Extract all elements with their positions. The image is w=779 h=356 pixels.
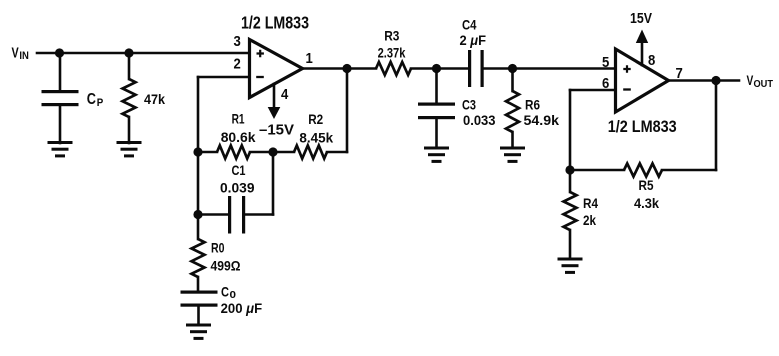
wire C1 row right xyxy=(245,213,273,216)
resistor R4 2k xyxy=(564,192,577,230)
wire CP stem top xyxy=(59,53,62,90)
svg-text:2 μF: 2 μF xyxy=(460,32,487,48)
op-amp U1 plus sign xyxy=(257,50,264,57)
svg-text:6: 6 xyxy=(602,76,609,92)
wire C1 to junction vertical xyxy=(272,152,275,215)
svg-text:1/2 LM833: 1/2 LM833 xyxy=(608,117,677,136)
wire CP stem bottom xyxy=(59,106,62,143)
wire R6 to ground xyxy=(511,132,514,148)
svg-text:IN: IN xyxy=(19,50,29,62)
svg-text:C3: C3 xyxy=(462,97,476,113)
svg-text:C1: C1 xyxy=(232,162,246,178)
wire 47k stem top xyxy=(128,53,131,79)
capacitor C4 plates xyxy=(468,50,471,87)
node R1/R2/C1 junction xyxy=(268,147,277,156)
ground under R6 xyxy=(500,147,525,150)
resistor R1 80.6k xyxy=(217,146,250,159)
wire opamp1 output xyxy=(303,67,377,70)
svg-text:5: 5 xyxy=(602,55,609,71)
node VOUT junction xyxy=(711,76,720,85)
arrow 15V (pin 8) xyxy=(636,30,648,44)
wire R4 to ground xyxy=(569,230,572,259)
svg-text:P: P xyxy=(97,97,104,109)
svg-text:15V: 15V xyxy=(630,11,652,27)
wire C3 stem top xyxy=(435,69,438,103)
svg-text:3: 3 xyxy=(234,34,241,50)
node R1 left junction xyxy=(193,147,202,156)
op-amp U2 plus sign xyxy=(623,65,630,72)
ground under C3 xyxy=(424,147,449,150)
svg-text:47k: 47k xyxy=(144,91,165,107)
resistor R2 8.45k xyxy=(294,146,327,159)
node 47k junction xyxy=(124,48,133,57)
svg-text:200 μF: 200 μF xyxy=(221,300,263,316)
svg-text:OUT: OUT xyxy=(754,79,774,90)
svg-text:R3: R3 xyxy=(384,28,399,44)
resistor R0 499ohm xyxy=(192,239,205,277)
wire feedback row left xyxy=(198,151,217,154)
resistor R5 4.3k xyxy=(624,164,662,177)
wire pin8 stem xyxy=(641,43,644,66)
svg-text:8.45k: 8.45k xyxy=(299,129,333,145)
node R3/C3/C4 junction xyxy=(432,64,441,73)
wire opamp2 output xyxy=(669,79,740,82)
op-amp U2 minus sign xyxy=(623,88,631,90)
ground under 47k xyxy=(117,141,142,144)
wire VIN to pin3 xyxy=(37,52,250,55)
wire pin6 horizontal xyxy=(570,89,616,92)
resistor R6 54.9k xyxy=(506,91,519,132)
wire feedback2 row right xyxy=(662,169,716,172)
wire feedback row mid xyxy=(250,151,294,154)
svg-text:V: V xyxy=(12,46,19,62)
capacitor C0 plates xyxy=(181,291,218,294)
capacitor CP plates xyxy=(42,90,79,93)
svg-text:8: 8 xyxy=(648,53,655,69)
arrow -15V (pin 4) xyxy=(268,107,281,119)
wire left feedback vertical xyxy=(197,77,200,239)
wire C4 to pin5 xyxy=(484,67,616,70)
wire feedback row right xyxy=(327,151,347,154)
svg-text:80.6k: 80.6k xyxy=(221,129,256,145)
op-amp U2 1/2 LM833 xyxy=(616,49,669,112)
node C1 left junction xyxy=(193,210,202,219)
svg-text:R4: R4 xyxy=(583,195,598,211)
resistor R3 2.37k xyxy=(376,62,411,75)
ground under CP xyxy=(48,141,73,144)
wire R3 to C4 xyxy=(411,67,468,70)
svg-text:4.3k: 4.3k xyxy=(634,195,659,211)
wire R0 to C0 xyxy=(197,277,200,291)
op-amp U1 minus sign xyxy=(256,76,264,78)
svg-text:2k: 2k xyxy=(583,212,596,228)
node R4/R5 junction xyxy=(565,165,574,174)
wire C1 row left xyxy=(198,213,228,216)
svg-text:R0: R0 xyxy=(211,240,225,256)
svg-text:7: 7 xyxy=(676,66,683,82)
svg-text:V: V xyxy=(747,73,754,88)
wire 47k stem bottom xyxy=(128,117,131,143)
svg-text:1: 1 xyxy=(306,51,313,67)
svg-text:–15V: –15V xyxy=(259,123,294,139)
svg-text:54.9k: 54.9k xyxy=(524,112,560,128)
resistor 47k xyxy=(123,79,136,117)
capacitor C3 plates xyxy=(418,103,455,106)
node C4/R6 junction xyxy=(508,64,517,73)
svg-text:R2: R2 xyxy=(308,111,323,127)
svg-text:R1: R1 xyxy=(232,111,245,127)
ground under R4 xyxy=(558,258,583,261)
wire pin6 feedback vertical xyxy=(569,90,572,192)
wire C0 to ground xyxy=(197,307,200,326)
svg-text:0.039: 0.039 xyxy=(220,180,255,196)
svg-text:1/2 LM833: 1/2 LM833 xyxy=(241,13,309,33)
node VIN/CP junction xyxy=(55,48,64,57)
svg-text:R6: R6 xyxy=(525,97,540,113)
svg-text:0.033: 0.033 xyxy=(463,112,496,128)
svg-text:4: 4 xyxy=(281,87,288,103)
svg-text:C: C xyxy=(87,91,96,108)
wire output feedback vertical xyxy=(715,81,718,171)
svg-text:R5: R5 xyxy=(639,177,654,193)
wire feedback2 row left xyxy=(570,169,624,172)
svg-text:2: 2 xyxy=(234,56,241,72)
svg-text:C4: C4 xyxy=(462,17,477,33)
node opamp1 output junction xyxy=(342,64,351,73)
op-amp U1 1/2 LM833 xyxy=(250,40,303,98)
capacitor C1 plates xyxy=(228,196,231,234)
wire R2 to output vertical xyxy=(346,69,349,153)
wire pin2 horizontal xyxy=(198,76,250,79)
wire C3 to ground xyxy=(435,119,438,148)
wire R6 stem top xyxy=(511,69,514,92)
svg-text:C: C xyxy=(221,284,229,300)
svg-text:499Ω: 499Ω xyxy=(211,258,241,274)
ground under C0 xyxy=(186,324,211,327)
svg-text:2.37k: 2.37k xyxy=(378,44,406,60)
wire pin4 stem xyxy=(273,84,276,108)
